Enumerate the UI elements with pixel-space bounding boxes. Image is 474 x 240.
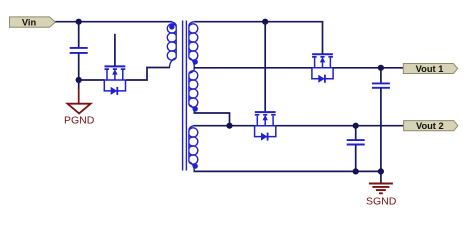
wire PGND stem upper [78, 80, 80, 89]
wire C1 bottom lead [78, 53, 80, 80]
wire ground rail [194, 170, 381, 172]
junction node top rail / Q3 gate [262, 19, 268, 25]
transformer T1 primary polarity dot [169, 24, 174, 29]
capacitor C1 [70, 48, 88, 53]
wire C3 top lead [355, 126, 357, 140]
port Vin [10, 17, 56, 28]
transformer T1 secondary S3 polarity dot [193, 163, 198, 168]
wire Q1 drain to primary bottom [126, 68, 170, 81]
wire C2 bottom lead [380, 88, 382, 171]
transistor Q1 [104, 66, 125, 95]
junction node Vout1 [378, 65, 384, 71]
wire top rail secondary to Q2 gate [194, 22, 322, 55]
junction node Vin/C1 [76, 19, 82, 25]
port Vout 1 [403, 64, 457, 74]
junction node C1/Q1/PGND [76, 77, 82, 83]
transistor Q3 [255, 112, 276, 140]
wire node to Q1 source [79, 79, 105, 81]
junction node C2/SGND [378, 168, 384, 174]
wire Q3 gate lead [264, 22, 266, 112]
wire S3 top to junction [194, 125, 255, 127]
transformer T1 secondary S1 polarity dot [193, 59, 198, 64]
wire top rail primary [55, 21, 172, 23]
wire Q2 drain to Vout1 [333, 67, 403, 69]
svg-text:SGND: SGND [366, 195, 397, 207]
power port PGND [68, 88, 91, 113]
power port SGND [369, 171, 393, 193]
transformer T1 secondary S2 polarity dot [193, 106, 198, 111]
transformer T1 core [183, 21, 187, 171]
transistor Q2 [312, 54, 333, 83]
junction node Vout2 [353, 123, 359, 129]
transformer T1 secondary winding S1 [189, 22, 198, 68]
capacitor C3 [347, 140, 365, 144]
transformer T1 primary winding [167, 22, 176, 68]
svg-text:Vout 1: Vout 1 [416, 64, 444, 74]
wire C2 top lead [380, 68, 382, 84]
junction node C3/ground [353, 168, 359, 174]
wire tap S1/S2 to Q2 source [194, 67, 312, 69]
svg-text:Vin: Vin [22, 18, 37, 28]
wire tap S2/S3 [194, 113, 230, 126]
svg-text:PGND: PGND [64, 115, 95, 127]
wire Q1 gate stub [114, 34, 116, 66]
wire C1 top lead [78, 22, 80, 48]
transformer T1 secondary winding S2 [189, 68, 198, 113]
wire C3 bottom lead [355, 145, 357, 172]
junction node S2/S3 tap [226, 123, 232, 129]
port Vout 2 [404, 121, 458, 132]
wire Q3 drain to Vout2 [276, 125, 404, 127]
transformer T1 secondary winding S3 [189, 126, 198, 172]
svg-text:Vout 2: Vout 2 [416, 121, 444, 131]
capacitor C2 [372, 83, 390, 87]
